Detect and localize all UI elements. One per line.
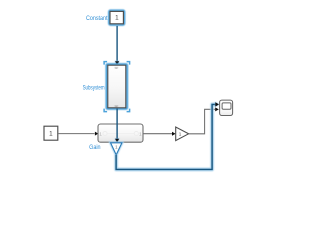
- svg-text:1: 1: [49, 131, 53, 138]
- slider knob left: [103, 131, 107, 135]
- wire W2 Subsystem to Gain (highlighted, crosses slider block): [115, 109, 120, 143]
- subsystem output port mark: [115, 106, 118, 107]
- slider block (wide): [98, 124, 143, 142]
- gain Gain (down triangle, highlighted): [111, 143, 122, 155]
- svg-text:Constant: Constant: [86, 16, 108, 22]
- scope Scope: [220, 100, 233, 115]
- slider knob right: [134, 131, 138, 135]
- scope screen: [222, 103, 231, 109]
- constant Constant (top, selected): [109, 10, 124, 24]
- gain right (triangle): [176, 127, 189, 141]
- subsystem input port mark: [115, 67, 118, 68]
- subsystem Subsystem (selected): [104, 62, 130, 112]
- slider track: [107, 133, 134, 135]
- svg-text:Gain: Gain: [89, 145, 101, 151]
- wire W1 Constant to Subsystem (highlighted): [115, 26, 120, 66]
- wire W4 Gain feedback to scope input 1 (highlighted): [116, 102, 219, 170]
- svg-text:1: 1: [115, 15, 119, 22]
- svg-text:1: 1: [179, 132, 182, 137]
- selection corner brackets: [104, 62, 107, 65]
- svg-text:Subsystem: Subsystem: [83, 86, 105, 92]
- constant block 1 (left): [44, 126, 58, 140]
- wire W5 slider to right gain (gray): [143, 132, 175, 136]
- wire W6 right gain to scope input 2 (gray): [189, 109, 215, 134]
- wire W3 left constant to slider block (gray): [58, 132, 98, 136]
